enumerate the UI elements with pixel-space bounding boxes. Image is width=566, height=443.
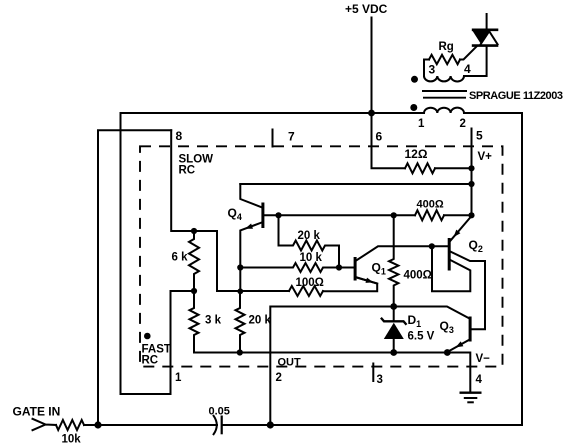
svg-text:+5 VDC: +5 VDC xyxy=(345,2,388,16)
svg-text:100Ω: 100Ω xyxy=(296,277,324,289)
svg-text:0.05: 0.05 xyxy=(209,406,230,418)
svg-text:2: 2 xyxy=(460,118,466,130)
svg-text:SPRAGUE 11Z2003: SPRAGUE 11Z2003 xyxy=(469,90,563,102)
svg-text:1: 1 xyxy=(418,118,425,130)
svg-text:20 k: 20 k xyxy=(249,315,272,327)
svg-text:20 k: 20 k xyxy=(298,230,321,242)
svg-text:12Ω: 12Ω xyxy=(405,147,428,161)
svg-text:7: 7 xyxy=(288,130,295,144)
svg-text:1: 1 xyxy=(175,372,182,384)
svg-text:GATE IN: GATE IN xyxy=(13,405,61,419)
svg-text:4: 4 xyxy=(464,62,471,76)
svg-text:3 k: 3 k xyxy=(205,315,222,327)
svg-text:OUT: OUT xyxy=(278,357,302,369)
svg-text:8: 8 xyxy=(176,129,183,143)
svg-text:6 k: 6 k xyxy=(172,252,189,264)
svg-text:400Ω: 400Ω xyxy=(417,199,444,211)
svg-text:Rg: Rg xyxy=(439,41,454,53)
svg-text:RC: RC xyxy=(142,355,159,367)
svg-text:6: 6 xyxy=(376,130,383,144)
svg-text:4: 4 xyxy=(476,374,483,386)
svg-text:6.5 V: 6.5 V xyxy=(408,331,435,343)
svg-text:10 k: 10 k xyxy=(300,252,323,264)
svg-text:5: 5 xyxy=(476,129,483,143)
svg-text:V−: V− xyxy=(476,353,491,365)
svg-text:3: 3 xyxy=(377,374,383,386)
svg-text:10k: 10k xyxy=(62,434,82,443)
svg-text:RC: RC xyxy=(179,165,196,177)
svg-text:3: 3 xyxy=(429,63,436,77)
svg-text:400Ω: 400Ω xyxy=(404,270,432,282)
svg-text:V+: V+ xyxy=(478,151,493,163)
svg-text:2: 2 xyxy=(276,372,282,384)
